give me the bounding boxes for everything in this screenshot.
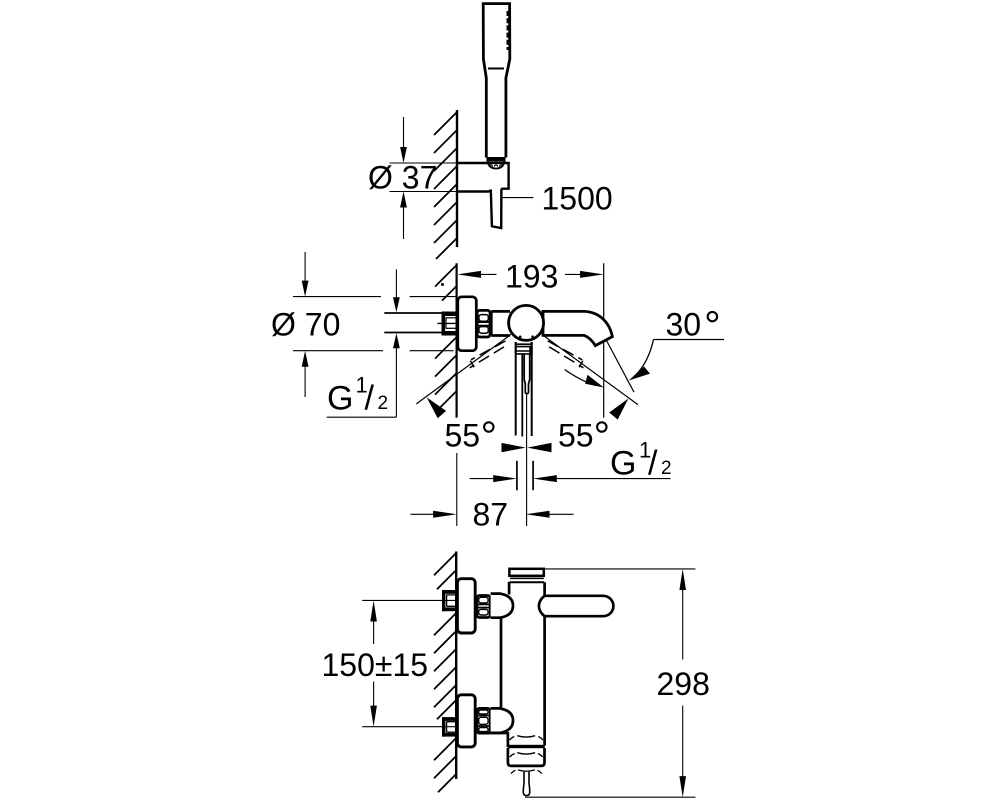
dimension Ø70 arrows and line: [304, 252, 306, 283]
swing arrowhead left: [427, 397, 446, 418]
lever capsule (side view): [539, 596, 614, 616]
wall bracket body: [457, 163, 509, 189]
hand shower end cap: [487, 157, 506, 162]
hex nut bottom (side view): [477, 708, 490, 733]
svg-text:150±15: 150±15: [322, 647, 429, 683]
hex nut (front view): [477, 310, 490, 337]
svg-text:55: 55: [445, 418, 481, 454]
faucet centre line: [526, 394, 528, 526]
svg-text:30: 30: [666, 307, 702, 343]
spout (front view): [543, 311, 612, 345]
ghost lever dashes right: [548, 341, 583, 360]
svg-text:Ø 37: Ø 37: [368, 160, 437, 196]
wall hatching (bottom section): [434, 553, 456, 792]
30 deg underline: [654, 339, 725, 341]
wall line (top section): [456, 110, 458, 247]
lever neck bands (front view): [516, 342, 532, 354]
ledge under bottom union: [478, 733, 508, 735]
lever grip lines (front view): [515, 354, 517, 436]
dimension 298 extension lines: [544, 568, 696, 570]
swing arrowhead right: [609, 399, 628, 420]
dimension 298 arrows and line: [679, 569, 686, 590]
in-wall union block bottom (side view): [442, 717, 456, 721]
hose nipple: [523, 772, 529, 796]
body bottom curvature arcs: [517, 736, 535, 737]
leader line for 1500: [502, 197, 534, 199]
in-wall union block top (side view): [442, 590, 456, 594]
dimension 150±15 arrows and line: [370, 600, 377, 621]
ghost lever dashes left: [471, 341, 506, 360]
svg-text:1500: 1500: [542, 181, 613, 217]
indicator dots on circle: [519, 336, 522, 339]
svg-text:Ø 70: Ø 70: [271, 306, 340, 342]
svg-text:2: 2: [378, 393, 389, 414]
hand shower inner seam line: [488, 68, 504, 70]
dimension 193 line and arrows: [603, 263, 605, 417]
nipple top curvature arc: [511, 770, 542, 774]
bracket holder cup with cross hatch: [488, 162, 505, 169]
escutcheon bottom (side view): [457, 695, 475, 747]
wall line (bottom section): [455, 552, 457, 780]
inlet pipe (in-wall, front view): [384, 312, 442, 314]
G 1/2 outlet extension lines: [516, 461, 518, 490]
svg-text:/: /: [648, 444, 658, 482]
inlet dome bottom (side view): [491, 708, 513, 733]
55 degree swing line left: [416, 335, 511, 404]
faucet body tube (front view): [491, 311, 510, 335]
150±15 top extension line / pipe centre: [362, 599, 456, 601]
30 deg curved leader with arrowhead: [634, 340, 654, 377]
hex nut top (side view): [477, 596, 490, 618]
svg-text:55: 55: [558, 418, 594, 454]
55 degree swing line right: [542, 335, 638, 405]
G 1/2 outlet dimension arrows: [470, 478, 495, 480]
svg-text:2: 2: [661, 458, 672, 479]
stray dot mark: [441, 283, 444, 286]
pipe centre line: [438, 322, 457, 324]
wall line lower segment / 87 extension line: [456, 453, 458, 526]
wall hatching (middle section): [435, 265, 457, 411]
svg-text:193: 193: [505, 259, 558, 295]
lever pin (front view): [524, 354, 530, 394]
in-wall union block (front view): [442, 312, 457, 317]
svg-text:G: G: [610, 444, 636, 482]
G 1/2 inlet dimension line: [395, 269, 397, 297]
hand shower outline: [483, 4, 510, 158]
wall hatching (top section): [434, 112, 457, 259]
cup inner curvature arcs: [517, 753, 535, 754]
dimension 87 arrows: [410, 513, 435, 515]
hand shower spray face dashes: [507, 11, 510, 50]
30 degree extension: spout swivel line: [607, 341, 634, 392]
centre pointer arrows (row under lever): [502, 443, 526, 452]
outlet cup body: [508, 748, 545, 766]
escutcheon top (side view): [457, 579, 475, 633]
svg-text:G: G: [327, 379, 353, 417]
dimension Ø37 extension lines: [390, 162, 458, 164]
dimension Ø37 arrows and line: [403, 117, 405, 150]
svg-text:87: 87: [473, 497, 509, 533]
escutcheon (front view): [458, 297, 477, 351]
faucet body (side view): [508, 582, 511, 595]
dimension Ø70 extension lines: [293, 296, 381, 298]
top cap (side view): [509, 569, 543, 576]
wall line (middle section): [456, 263, 458, 417]
svg-text:/: /: [365, 379, 375, 417]
inlet dome top (side view): [491, 594, 513, 618]
svg-text:298: 298: [657, 666, 710, 702]
swing arc arrow (right, inner): [565, 370, 597, 386]
shower hose: [491, 189, 502, 228]
outlet cup thick rim: [508, 745, 545, 748]
150±15 bottom extension line / pipe centre: [362, 726, 456, 728]
cartridge cap circle: [509, 305, 544, 340]
